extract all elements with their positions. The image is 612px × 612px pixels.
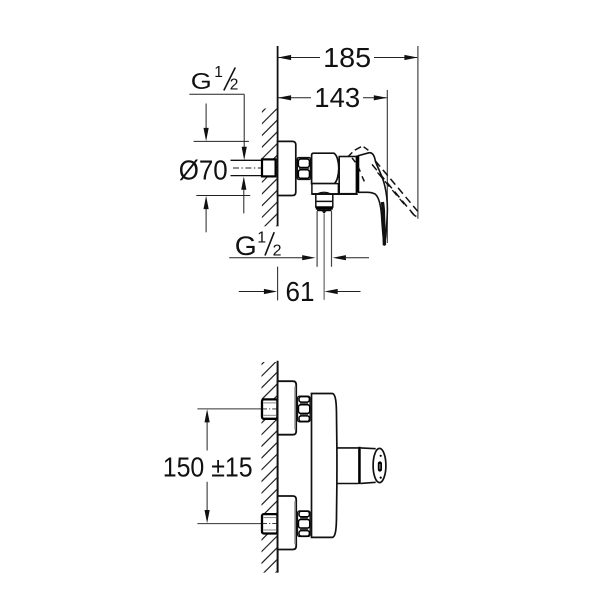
pipe end block (262, 159, 276, 176)
svg-text:G: G (191, 68, 212, 94)
svg-text:143: 143 (314, 82, 360, 113)
svg-text:185: 185 (323, 42, 371, 73)
wall extension line for 61 (277, 267, 279, 301)
union centre line top (197, 408, 261, 410)
extension line right for 185 (417, 46, 419, 219)
cylinder face arc (334, 153, 339, 183)
escutcheon upper (bottom view) (278, 381, 297, 435)
escutcheon (top view) (278, 141, 296, 195)
square nut lower (in wall) (262, 514, 277, 533)
dashed swing arc (352, 158, 367, 185)
wall surface line (top view) (277, 46, 279, 226)
escutcheon lower (bottom view) (278, 496, 297, 550)
hex nut upper (bottom view) (298, 396, 311, 422)
O70 arrow top (205, 104, 207, 130)
lever cap and blade (359, 153, 388, 246)
square nut upper (in wall) (262, 399, 277, 418)
mixer body (top view) (312, 147, 418, 246)
wall hatching (top view) (258, 94, 280, 245)
G1/2 arrow up to pipe bottom (243, 189, 245, 213)
svg-text:61: 61 (286, 276, 315, 307)
dimension 143 (278, 97, 386, 99)
valve neck (337, 448, 359, 484)
mixer body (bottom view) (312, 394, 337, 538)
thick divider line (356, 155, 359, 192)
svg-text:2: 2 (230, 77, 239, 94)
knob thick ring line (358, 447, 361, 484)
svg-text:1: 1 (214, 64, 223, 81)
dimension 185 (278, 57, 417, 59)
leader line under G 1/2 (189, 93, 244, 95)
outlet neck (316, 194, 333, 207)
dashed raised-lever apex (348, 147, 417, 217)
knob (361, 448, 386, 484)
dashed raised lever outline (375, 161, 417, 211)
shower outlet column (311, 192, 357, 300)
outlet centre line (323, 214, 325, 300)
dimension O70 extension lines (194, 140, 249, 142)
G1/2 lower dimension arrows (229, 257, 303, 259)
supply pipe (in wall) (231, 159, 262, 161)
pipe centre line (233, 167, 277, 169)
wall hatching (bottom view) (258, 346, 280, 590)
dimension 150 +-15 (206, 413, 208, 451)
dimension 61 (239, 291, 266, 293)
body bottom edge (311, 193, 357, 195)
svg-text:2: 2 (273, 242, 282, 259)
hex nut lower (bottom view) (298, 511, 311, 537)
crown arc over bottom edge (317, 192, 331, 194)
cartridge housing (312, 153, 339, 183)
middle section (339, 157, 356, 194)
svg-text:150 ±15: 150 ±15 (163, 451, 253, 482)
svg-text:Ø70: Ø70 (179, 155, 228, 186)
svg-text:G: G (235, 231, 257, 261)
outlet pipe lines (316, 211, 318, 267)
hex nut (top view) (297, 158, 310, 180)
extension line right for 143 (386, 90, 388, 243)
blade dark tip (382, 202, 384, 245)
lower collar band (312, 184, 339, 194)
wall surface line (bottom view) (277, 361, 279, 573)
svg-text:1: 1 (257, 230, 266, 247)
thread black band (316, 207, 333, 210)
union centre line bottom (197, 523, 261, 525)
O70 arrow bottom (205, 208, 207, 232)
